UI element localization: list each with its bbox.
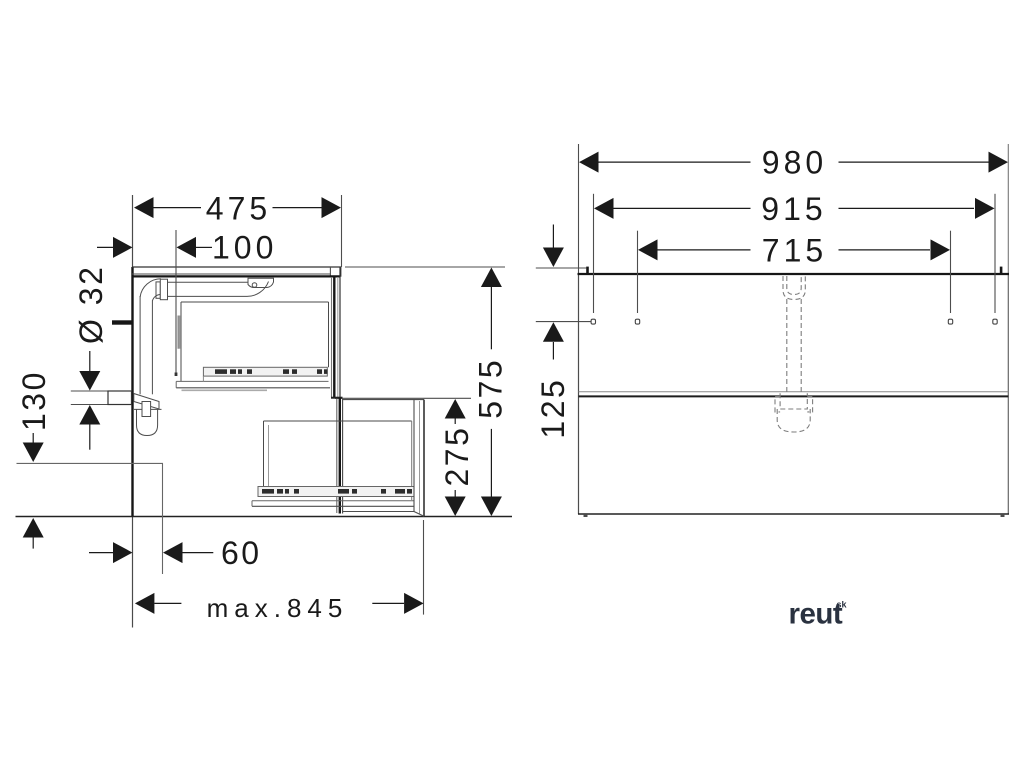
- logo sk mark: [837, 600, 848, 610]
- washbasin slab bottom edge: [132, 273, 330, 275]
- washbasin slab top edge: [132, 266, 341, 268]
- lower drawer bottom panel: [252, 501, 414, 507]
- upper drawer front panel: [332, 267, 341, 398]
- dim Ø32 upper arrow: [79, 351, 100, 391]
- dim 130 lower arrow: [23, 518, 44, 549]
- siphon rim: [134, 408, 162, 410]
- dim 475 arrow right: [322, 197, 342, 218]
- dim 60 right arrow: [163, 542, 213, 563]
- siphon cup: [137, 410, 158, 436]
- svg-text:475: 475: [206, 191, 271, 227]
- front view left side edge: [578, 144, 580, 514]
- svg-text:275: 275: [439, 426, 475, 487]
- front view cabinet bottom: [578, 513, 1009, 515]
- dashed drain fitting top: [783, 276, 805, 300]
- dim 125 lower arrow: [543, 322, 564, 359]
- cabinet inner base line: [17, 462, 164, 464]
- dim 915 arrow right: [975, 198, 995, 219]
- svg-text:915: 915: [761, 191, 826, 227]
- front view cabinet top (thick): [578, 273, 1010, 275]
- dashed siphon coupling: [775, 393, 813, 412]
- dim 575 upper arrow: [481, 268, 502, 350]
- lower drawer top line: [343, 399, 424, 401]
- dim 715 left extension: [637, 231, 639, 313]
- dim 100 extension line: [175, 230, 178, 376]
- upper drawer rail mounting marks: [215, 369, 328, 374]
- dim 915 arrow left: [594, 198, 614, 219]
- screw hole reference line: [536, 321, 591, 323]
- dim 130 upper arrow: [23, 433, 44, 462]
- cabinet top edge (thick): [132, 275, 341, 277]
- dim 130 label: [16, 370, 52, 431]
- siphon clamp: [142, 402, 151, 417]
- dim 715 right extension: [950, 231, 952, 313]
- pipe sleeve fitting: [156, 279, 168, 300]
- cabinet inner vertical (60 ref): [162, 463, 164, 574]
- dim 980 line: [598, 161, 989, 163]
- slab front edge ticks: [330, 267, 340, 278]
- lower drawer rail mounting marks: [262, 489, 412, 494]
- dim 275 label: [439, 426, 475, 487]
- dim 915 right extension: [994, 194, 996, 313]
- dim 980 label: [762, 145, 827, 181]
- dim Ø32 lower arrow: [79, 405, 100, 450]
- vertical drain pipe: [140, 296, 152, 394]
- dim 125 upper extension line: [536, 267, 587, 269]
- lower drawer bottom edge: [343, 511, 414, 513]
- front view right side edge: [1007, 144, 1009, 514]
- dim 475 arrow left: [134, 197, 154, 218]
- cabinet bottom edge: [16, 516, 513, 518]
- dim 475 line: [153, 207, 323, 209]
- dim 575 lower arrow: [481, 429, 502, 516]
- dim 715 arrow right: [931, 239, 951, 260]
- svg-text:575: 575: [473, 358, 509, 419]
- upper drawer box: [181, 302, 329, 382]
- lower drawer box: [264, 421, 412, 500]
- svg-text:980: 980: [762, 145, 827, 181]
- dim max845 left arrow: [135, 593, 182, 614]
- dim 60 label: [221, 535, 262, 571]
- dim 275 top extension line: [335, 397, 471, 399]
- front view bottom feet marks: [584, 515, 1005, 517]
- dim 715 line: [657, 249, 930, 251]
- svg-text:125: 125: [535, 378, 571, 439]
- drain fitting under basin: [248, 278, 274, 287]
- dim 275 upper arrow: [445, 399, 466, 424]
- dim max845 extension line: [423, 520, 425, 615]
- dim 275 lower arrow: [445, 490, 466, 516]
- dim max845 label: [207, 593, 349, 623]
- dim 915 left extension: [593, 194, 595, 313]
- dim 125 label: [535, 378, 571, 439]
- pipe elbow: [140, 279, 161, 301]
- svg-text:sk: sk: [837, 600, 848, 610]
- svg-text:reut: reut: [789, 598, 843, 631]
- dim 60 left arrow: [89, 542, 133, 563]
- drawer divider line: [331, 397, 343, 399]
- upper drawer slide rail: [203, 367, 327, 376]
- dim 475 label: [206, 191, 271, 227]
- dim 575 label: [473, 358, 509, 419]
- svg-text:100: 100: [212, 230, 277, 266]
- dim max845 right arrow: [372, 593, 423, 614]
- drain pipe stub: [108, 391, 132, 405]
- drain pipe stub extension lines: [71, 391, 108, 405]
- dim 715 label: [762, 233, 827, 269]
- dim 100 label: [212, 230, 277, 266]
- dim 475 right extension line: [341, 195, 343, 267]
- reut logo: [789, 598, 843, 631]
- svg-text:max.845: max.845: [207, 593, 349, 623]
- dim 980 arrow right: [989, 152, 1009, 173]
- dashed drain pipe: [787, 299, 801, 393]
- siphon collar: [134, 394, 159, 410]
- lower drawer slide rail: [258, 487, 414, 497]
- svg-text:60: 60: [221, 535, 262, 571]
- dim 980 arrow left: [579, 152, 599, 173]
- dim 100 outside arrow: [97, 237, 133, 258]
- dim 915 line: [613, 207, 974, 209]
- svg-text:Ø 32: Ø 32: [73, 265, 109, 344]
- svg-text:715: 715: [762, 233, 827, 269]
- lower drawer front panel: [414, 400, 424, 517]
- dim 575 top extension line: [345, 266, 505, 268]
- upper drawer back bracket: [178, 316, 180, 349]
- wall outlet mark: [112, 320, 133, 324]
- front view top corner ticks: [586, 267, 1002, 275]
- svg-text:130: 130: [16, 370, 52, 431]
- wall mounting line (left view back): [132, 195, 134, 628]
- upper drawer bottom panel: [176, 376, 330, 390]
- dim 125 upper arrow: [543, 225, 564, 268]
- dashed siphon cup: [777, 409, 810, 432]
- horizontal drain pipe: [168, 282, 269, 297]
- mounting screw holes: [591, 319, 997, 324]
- dim 915 label: [761, 191, 826, 227]
- dim 100 arrow: [177, 237, 213, 258]
- front view drawer split: [579, 392, 1009, 397]
- dim 715 arrow left: [638, 239, 658, 260]
- dim Ø32 label: [73, 265, 109, 344]
- carcass front edge band: [337, 398, 343, 514]
